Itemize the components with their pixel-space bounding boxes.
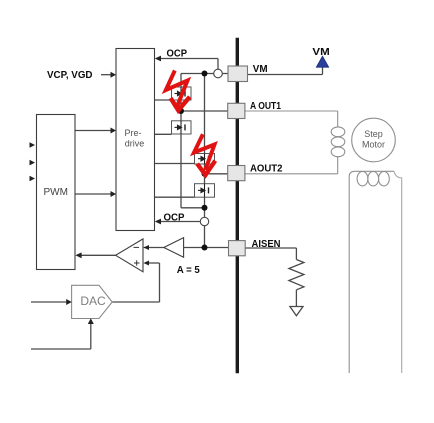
svg-text:VM: VM xyxy=(312,47,329,58)
svg-text:VCP, VGD: VCP, VGD xyxy=(47,70,93,81)
svg-text:A OUT1: A OUT1 xyxy=(250,101,281,112)
svg-text:OCP: OCP xyxy=(164,212,185,223)
svg-text:OCP: OCP xyxy=(167,49,188,60)
svg-text:VM: VM xyxy=(253,64,268,75)
svg-text:Step: Step xyxy=(364,129,383,139)
svg-text:Motor: Motor xyxy=(362,140,385,150)
svg-text:DAC: DAC xyxy=(80,294,106,308)
svg-text:AISEN: AISEN xyxy=(252,239,281,250)
svg-text:Pre-: Pre- xyxy=(124,128,141,138)
svg-text:PWM: PWM xyxy=(44,187,68,198)
svg-text:AOUT2: AOUT2 xyxy=(250,164,283,175)
svg-text:drive: drive xyxy=(125,138,145,148)
svg-text:A = 5: A = 5 xyxy=(177,265,200,276)
